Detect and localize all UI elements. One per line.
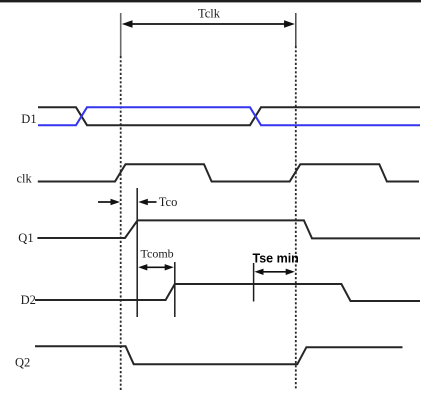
measurement line t2 solid segment (295, 13, 297, 46)
measurement line t1 dashed vertical (120, 56, 122, 390)
svg-text:Tse min: Tse min (253, 252, 299, 266)
wire D2 trace (35, 284, 420, 301)
svg-text:Tco: Tco (159, 195, 178, 209)
wire D1 black trace (38, 107, 420, 125)
svg-text:D2: D2 (21, 293, 36, 307)
svg-text:Q1: Q1 (18, 231, 33, 245)
wire clk trace (38, 164, 419, 181)
measurement line t2 dashed vertical (295, 46, 297, 390)
svg-text:clk: clk (17, 172, 33, 186)
svg-text:D1: D1 (21, 112, 36, 126)
Tcomb tick right (174, 262, 176, 317)
svg-text:Tclk: Tclk (198, 6, 221, 20)
Tse min tick (253, 263, 255, 302)
Tco setup arrow (points right at t1) (98, 199, 120, 206)
wire Q2 trace (35, 346, 403, 364)
Tco tick (136, 188, 138, 317)
top rule (0, 0, 421, 2)
measurement line t1 solid segment (120, 13, 122, 56)
Tse min double arrow (254, 269, 294, 275)
wire D1 blue trace (38, 107, 420, 125)
wire Q1 trace (37, 220, 420, 238)
Tco arrow (points left at tick) (138, 199, 156, 206)
svg-text:Q2: Q2 (15, 356, 30, 370)
Tclk double arrow (122, 20, 295, 27)
svg-text:Tcomb: Tcomb (141, 247, 174, 261)
Tcomb double arrow (138, 264, 174, 270)
